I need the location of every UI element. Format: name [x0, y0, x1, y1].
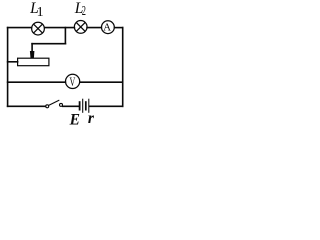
- wire: rheostat left lead: [8, 61, 18, 63]
- svg-text:V: V: [70, 75, 76, 89]
- wire: right bus vertical: [122, 28, 124, 107]
- lamp L2: [74, 21, 87, 34]
- svg-text:2: 2: [82, 4, 86, 19]
- rheostat R body: [18, 58, 49, 65]
- wire: branch vertical from top wire down: [64, 28, 66, 44]
- wire: between lamp L1 and lamp L2: [45, 27, 75, 29]
- wire: top-left segment from left bus to lamp L1: [8, 27, 32, 29]
- battery E with internal resistance r: [80, 99, 89, 113]
- svg-text:r: r: [88, 110, 95, 127]
- battery plate long 1: [82, 99, 84, 113]
- wire: ammeter to top-right corner: [115, 27, 123, 29]
- rheostat R slider arrowhead: [30, 51, 35, 58]
- voltmeter V: [66, 74, 80, 88]
- battery plate long 2: [88, 99, 90, 113]
- switch S: [46, 100, 63, 108]
- svg-text:A: A: [103, 21, 111, 33]
- svg-text:1: 1: [37, 5, 44, 20]
- switch contact left: [46, 105, 49, 108]
- wire: switch to battery: [63, 105, 79, 107]
- switch contact right: [60, 103, 63, 106]
- wire: voltmeter branch right: [80, 81, 123, 83]
- battery plate short 1: [79, 101, 81, 110]
- wire: left bus vertical: [7, 28, 9, 107]
- svg-text:E: E: [69, 112, 80, 128]
- wire: between lamp L2 and ammeter: [87, 27, 101, 29]
- ammeter A: [102, 21, 115, 34]
- wire: bottom from left corner to switch: [8, 105, 46, 107]
- wire: branch horizontal to rheostat slider: [32, 43, 65, 45]
- wire: battery to right corner: [89, 105, 122, 107]
- switch blade (open): [49, 100, 59, 105]
- wire: slider drop shaft: [31, 44, 33, 52]
- battery plate short 2: [85, 101, 87, 110]
- wire: voltmeter branch left: [8, 81, 66, 83]
- lamp L1: [32, 22, 45, 35]
